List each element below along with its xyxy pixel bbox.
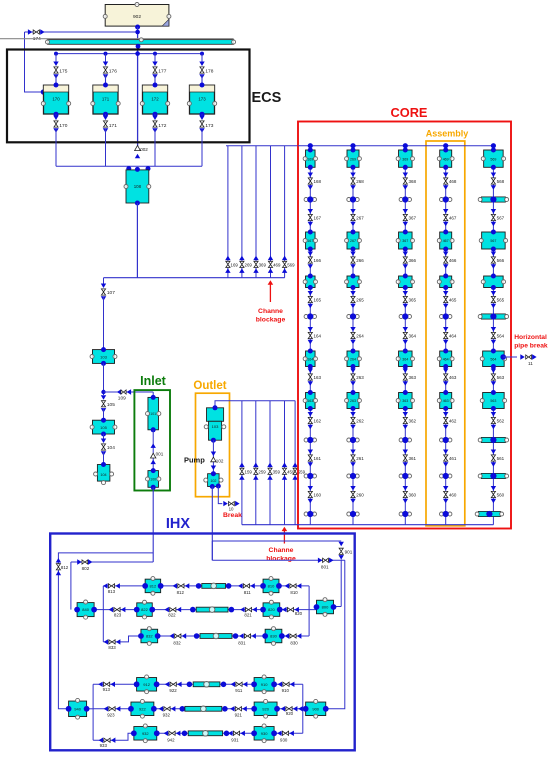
junction node ch4 r3	[440, 196, 452, 202]
svg-text:109: 109	[118, 396, 126, 402]
valve 820	[282, 607, 303, 616]
valve 564	[491, 327, 505, 344]
valve 169	[225, 256, 238, 273]
valve 923	[104, 706, 121, 718]
volume 467	[437, 230, 454, 252]
volume 163	[303, 390, 317, 411]
junction node ch5 r17	[478, 473, 508, 479]
svg-text:464: 464	[449, 333, 457, 338]
svg-text:823: 823	[114, 612, 122, 617]
junction node ch1 r3	[304, 196, 316, 202]
svg-text:466: 466	[449, 258, 457, 263]
svg-text:560: 560	[497, 492, 505, 497]
svg-text:830: 830	[290, 641, 298, 646]
volume 269	[345, 148, 362, 170]
svg-text:105: 105	[100, 425, 107, 430]
wire ECS tank header	[54, 51, 204, 62]
svg-text:921: 921	[235, 713, 243, 718]
pump junction 102	[184, 440, 224, 474]
svg-text:269: 269	[245, 263, 253, 268]
junction node ch4 r19	[440, 511, 452, 517]
wire manifold line 559	[294, 401, 296, 525]
svg-text:564: 564	[490, 357, 496, 361]
svg-text:267: 267	[350, 239, 356, 243]
svg-text:563: 563	[490, 399, 496, 403]
svg-text:001: 001	[156, 451, 164, 456]
svg-text:911: 911	[235, 688, 243, 693]
valve 367	[403, 209, 417, 226]
valve 360	[403, 486, 417, 503]
svg-text:469: 469	[443, 157, 449, 161]
svg-text:569: 569	[490, 157, 496, 161]
svg-text:162: 162	[314, 418, 322, 423]
svg-text:464: 464	[443, 357, 449, 361]
valve 163	[308, 369, 322, 386]
svg-text:166: 166	[314, 258, 322, 263]
svg-text:364: 364	[402, 357, 408, 361]
volume 102	[204, 471, 223, 489]
wire core inlet header	[298, 145, 493, 147]
volume 820	[260, 600, 283, 619]
tank 172	[140, 83, 169, 117]
wire 912 feed line	[58, 553, 153, 709]
valve 467	[443, 209, 457, 226]
wire lower distribution line	[104, 277, 285, 279]
volume 940	[66, 698, 93, 719]
svg-text:101: 101	[150, 412, 156, 416]
svg-text:933: 933	[100, 743, 108, 748]
valve 365	[403, 291, 417, 308]
wire core outlet header	[242, 524, 494, 526]
wire row C	[103, 636, 309, 642]
valve 159	[239, 463, 252, 480]
svg-text:Break: Break	[223, 512, 242, 519]
svg-text:102: 102	[216, 459, 224, 464]
svg-text:IHX: IHX	[166, 516, 191, 532]
channel blockage callout (upper)	[256, 280, 286, 323]
junction node ch2 r3	[347, 196, 359, 202]
svg-text:900: 900	[312, 706, 319, 711]
Assembly boundary box	[426, 129, 469, 526]
svg-text:460: 460	[449, 492, 457, 497]
wire row B	[103, 609, 316, 611]
valve 459	[282, 463, 295, 480]
volume 920	[251, 699, 280, 718]
wire manifold line 259	[255, 401, 257, 525]
svg-text:922: 922	[139, 706, 146, 711]
svg-text:463: 463	[449, 375, 457, 380]
junction node ch2 r17	[347, 473, 359, 479]
svg-text:932: 932	[142, 731, 149, 736]
svg-text:363: 363	[402, 399, 408, 403]
valve 269	[239, 256, 252, 273]
valve 162	[308, 412, 322, 429]
svg-text:173: 173	[198, 97, 206, 102]
svg-text:367: 367	[409, 215, 417, 220]
svg-text:Inlet: Inlet	[140, 374, 167, 388]
valve 813	[103, 583, 120, 594]
wire row A	[103, 585, 309, 587]
valve 913	[98, 682, 115, 693]
wire manifold line 459	[284, 401, 286, 525]
wire bottom-train right riser	[302, 684, 304, 733]
volume 840	[74, 600, 103, 619]
volume 832	[138, 627, 161, 646]
wire 902 stem to ECS	[137, 27, 139, 146]
junction node ch5 r15	[478, 437, 508, 443]
wire top-train right riser	[308, 586, 310, 636]
valve 465	[443, 291, 457, 308]
wire inlet down-stem into IHX	[152, 487, 154, 562]
svg-text:465: 465	[449, 297, 457, 302]
volume 930	[251, 724, 277, 743]
valve 830 + volume 830	[262, 627, 301, 646]
valve 466	[443, 252, 457, 269]
volume 900	[303, 699, 329, 718]
wire row B (9xx)	[93, 708, 306, 710]
channel blockage callout (lower)	[266, 527, 296, 563]
valve 811	[238, 583, 255, 595]
svg-text:369: 369	[402, 157, 408, 161]
svg-text:361: 361	[409, 456, 417, 461]
svg-text:562: 562	[497, 418, 505, 423]
wire outlet stem corners (901/801 branches)	[212, 541, 341, 560]
svg-text:569: 569	[287, 263, 295, 268]
volume 267	[345, 230, 362, 252]
junction 001	[151, 430, 164, 471]
junction node ch1 r17	[304, 473, 316, 479]
junction node ch3 r17	[399, 473, 411, 479]
grey rail line	[0, 38, 234, 40]
wire channel 1 spine	[308, 143, 313, 525]
wire row C (9xx)	[93, 733, 303, 740]
hx tube row B	[190, 607, 234, 613]
valve 171 (tank outlet)	[103, 114, 117, 166]
valve 468	[443, 173, 457, 190]
svg-text:173: 173	[205, 123, 213, 129]
valve 461	[443, 450, 457, 467]
svg-text:169: 169	[307, 157, 313, 161]
svg-text:175: 175	[59, 69, 67, 75]
svg-text:163: 163	[307, 399, 313, 403]
wire manifold line 269	[241, 146, 243, 278]
svg-text:923: 923	[107, 713, 115, 718]
valve 107	[101, 278, 115, 350]
svg-text:369: 369	[259, 263, 267, 268]
svg-text:913: 913	[103, 687, 111, 692]
valve 562	[491, 412, 505, 429]
svg-text:11: 11	[528, 361, 533, 366]
valve 942	[164, 731, 181, 743]
wire manifold line 569	[284, 146, 286, 278]
volume 902 (time-dependent volume)	[103, 3, 171, 30]
wire manifold line 169	[227, 146, 229, 278]
valve 173 (tank outlet)	[199, 114, 213, 166]
ECS boundary box	[7, 50, 282, 143]
junction node ch2 r15	[347, 437, 359, 443]
svg-text:170: 170	[52, 97, 60, 102]
svg-text:810: 810	[268, 584, 275, 589]
svg-text:Channe: Channe	[269, 547, 294, 554]
wire left drop to tank 170	[25, 32, 46, 95]
valve 160	[308, 486, 322, 503]
wire valve-174 line	[25, 30, 140, 35]
valve 262	[350, 412, 364, 429]
svg-text:812: 812	[150, 584, 157, 589]
svg-text:366: 366	[409, 258, 417, 263]
svg-text:267: 267	[356, 215, 364, 220]
cyan distribution bar	[46, 38, 236, 49]
svg-text:368: 368	[409, 179, 417, 184]
pump volume 103	[204, 405, 226, 442]
volume 800	[314, 598, 337, 617]
svg-text:104: 104	[107, 445, 115, 451]
volume 922	[128, 699, 157, 718]
svg-text:167: 167	[314, 215, 322, 220]
valve 901	[334, 542, 353, 607]
svg-text:362: 362	[409, 418, 417, 423]
volume 169	[303, 148, 317, 170]
svg-text:832: 832	[173, 641, 181, 646]
valve 568	[491, 173, 505, 190]
valve 463	[443, 369, 457, 386]
valve 176	[103, 62, 117, 86]
volume 912	[134, 675, 160, 694]
valve 166	[308, 252, 322, 269]
wire top-train left riser	[102, 586, 104, 642]
svg-text:468: 468	[449, 179, 457, 184]
wire manifold line 359	[269, 401, 271, 525]
junction node ch1 r19	[304, 511, 316, 517]
valve 812 (train feed)	[56, 558, 69, 575]
svg-text:833: 833	[108, 645, 116, 650]
svg-text:Outlet: Outlet	[193, 380, 226, 392]
svg-text:463: 463	[443, 399, 449, 403]
svg-text:800: 800	[322, 605, 329, 610]
volume 569	[481, 148, 505, 170]
valve 164	[308, 327, 322, 344]
volume 910	[251, 675, 277, 694]
volume ch4 r7	[437, 274, 454, 291]
valve 172 (tank outlet)	[152, 114, 166, 166]
svg-text:259: 259	[258, 469, 266, 474]
volume 363	[396, 390, 414, 411]
wire channel 5 spine	[491, 143, 496, 525]
valve 363	[403, 369, 417, 386]
svg-text:176: 176	[109, 69, 117, 75]
svg-text:159: 159	[245, 469, 253, 474]
volume ch3 r7	[396, 274, 414, 291]
valve 178	[199, 62, 213, 86]
volume 263	[345, 390, 362, 411]
valve 821	[240, 607, 257, 618]
svg-text:pipe break: pipe break	[514, 342, 548, 349]
svg-text:Assembly: Assembly	[426, 129, 469, 139]
svg-text:ECS: ECS	[252, 90, 282, 106]
svg-text:820: 820	[295, 611, 303, 616]
volume 469	[437, 148, 454, 170]
svg-text:104: 104	[100, 473, 106, 477]
valve 910	[278, 682, 295, 693]
valve 566	[491, 252, 505, 269]
volume 932	[131, 724, 160, 743]
svg-text:268: 268	[356, 179, 364, 184]
valve 368	[403, 173, 417, 190]
svg-text:802: 802	[82, 566, 90, 571]
svg-text:910: 910	[282, 688, 290, 693]
valve 361	[403, 450, 417, 467]
horizontal pipe break (valve 11)	[500, 334, 548, 366]
tank 170	[41, 83, 70, 117]
wire outlet top line to manifold header	[215, 401, 295, 408]
svg-text:171: 171	[109, 123, 117, 129]
volume 100	[146, 468, 161, 490]
svg-text:261: 261	[356, 456, 364, 461]
volume 364	[396, 349, 414, 370]
wire inlet stem corner + 802 line	[71, 562, 153, 610]
valve 810	[285, 583, 302, 595]
volume 369	[396, 148, 414, 170]
valve 822	[164, 607, 181, 618]
valve 833	[104, 639, 121, 650]
svg-text:blockage: blockage	[266, 556, 296, 563]
svg-text:930: 930	[280, 738, 288, 743]
valve 359	[267, 463, 280, 480]
valve 911	[231, 682, 248, 693]
wire manifold line 469	[270, 146, 272, 278]
junction node ch5 r3	[478, 196, 508, 202]
svg-text:266: 266	[356, 258, 364, 263]
svg-text:263: 263	[356, 375, 364, 380]
svg-text:567: 567	[497, 215, 505, 220]
valve 161	[308, 450, 322, 467]
volume 464	[437, 349, 454, 370]
volume 101	[146, 392, 161, 432]
valve 109	[104, 389, 154, 401]
valve 567	[491, 209, 505, 226]
svg-text:910: 910	[261, 682, 268, 687]
svg-text:813: 813	[108, 589, 116, 594]
svg-text:462: 462	[449, 418, 457, 423]
svg-text:105: 105	[107, 402, 115, 408]
valve 832	[169, 633, 186, 645]
svg-text:812: 812	[61, 565, 69, 570]
CORE boundary box	[298, 105, 511, 528]
svg-text:178: 178	[205, 69, 213, 75]
tank 171	[91, 83, 120, 117]
svg-text:831: 831	[238, 641, 246, 646]
valve 263	[350, 369, 364, 386]
wire manifold line 159	[241, 401, 243, 525]
svg-text:164: 164	[314, 333, 322, 338]
svg-text:565: 565	[497, 297, 505, 302]
junction node ch1 r15	[304, 437, 316, 443]
volume 104 (sink)	[94, 462, 114, 485]
junction node ch5 r9	[478, 313, 508, 319]
valve 260	[350, 486, 364, 503]
valve 464	[443, 327, 457, 344]
junction node ch3 r9	[399, 313, 411, 319]
valve 175	[53, 62, 67, 86]
valve 364	[403, 327, 417, 344]
svg-text:177: 177	[158, 69, 166, 75]
svg-text:364: 364	[409, 333, 417, 338]
svg-text:920: 920	[262, 706, 269, 711]
volume ch5 r7	[481, 274, 505, 291]
svg-text:822: 822	[141, 607, 148, 612]
svg-text:561: 561	[497, 456, 505, 461]
svg-text:901: 901	[345, 550, 353, 555]
svg-text:Channe: Channe	[258, 308, 283, 315]
valve 170 (tank outlet)	[53, 114, 67, 166]
svg-text:10: 10	[229, 506, 234, 511]
volume 563	[480, 390, 506, 411]
svg-text:165: 165	[314, 297, 322, 302]
valve 561	[491, 450, 505, 467]
volume 164	[303, 349, 317, 370]
hx tube row A (9xx)	[187, 682, 227, 688]
svg-text:CORE: CORE	[391, 105, 428, 120]
svg-text:567: 567	[490, 239, 496, 243]
junction node ch2 r19	[347, 511, 359, 517]
svg-text:821: 821	[244, 612, 252, 617]
valve 565	[491, 291, 505, 308]
junction 002	[135, 145, 149, 158]
Inlet boundary box	[134, 374, 170, 491]
valve 831	[238, 633, 256, 645]
svg-text:002: 002	[140, 147, 148, 152]
valve 933	[99, 738, 116, 748]
volume ch1 r7	[303, 274, 317, 291]
svg-text:922: 922	[169, 688, 177, 693]
svg-text:566: 566	[497, 258, 505, 263]
Outlet boundary box	[193, 380, 229, 497]
svg-text:942: 942	[167, 738, 175, 743]
valve 930	[277, 731, 294, 743]
svg-text:359: 359	[273, 469, 281, 474]
hx tube row C	[194, 633, 239, 639]
svg-text:172: 172	[151, 97, 159, 102]
volume 367	[396, 230, 414, 252]
svg-text:461: 461	[449, 456, 457, 461]
svg-text:264: 264	[356, 333, 364, 338]
valve 801 line	[212, 558, 344, 570]
svg-text:Pump: Pump	[184, 456, 205, 465]
wire channel 2 spine	[350, 143, 355, 525]
wire 801 drop to 900	[327, 560, 345, 709]
junction node ch4 r15	[440, 437, 452, 443]
svg-text:269: 269	[350, 157, 356, 161]
volume 103	[90, 347, 117, 366]
wire 108 down-stem	[136, 203, 138, 278]
svg-text:912: 912	[143, 682, 150, 687]
valve 932	[159, 706, 176, 718]
wire upper manifold header	[226, 145, 298, 147]
valve 366	[403, 252, 417, 269]
IHX boundary box	[50, 516, 355, 750]
valve 104	[101, 434, 115, 465]
volume ch2 r7	[345, 274, 362, 291]
svg-text:264: 264	[350, 357, 356, 361]
svg-text:467: 467	[443, 239, 449, 243]
svg-text:262: 262	[356, 418, 364, 423]
junction node ch4 r9	[440, 313, 452, 319]
svg-text:blockage: blockage	[256, 317, 286, 324]
volume 812	[142, 577, 163, 596]
svg-text:163: 163	[314, 375, 322, 380]
valve 268	[350, 173, 364, 190]
svg-text:365: 365	[409, 297, 417, 302]
